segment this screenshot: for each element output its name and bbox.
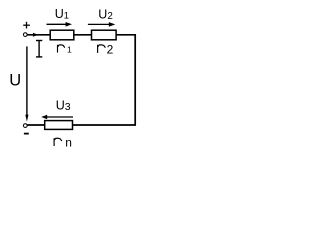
terminal (top, +) — [23, 33, 27, 37]
current arrow I on top wire — [33, 33, 38, 37]
label rn — [54, 138, 62, 146]
label r1 — [58, 45, 65, 53]
arrow U1 — [47, 22, 73, 27]
voltage arrow U (left side, pointing down) — [25, 46, 28, 121]
terminal (bottom, -) — [23, 124, 27, 128]
wire (bottom: right corner to rn) — [72, 124, 136, 126]
wire (rn to bottom terminal) — [27, 124, 45, 126]
wire (between r1 and r2) — [74, 34, 92, 36]
svg-text:1: 1 — [67, 44, 72, 54]
arrow U3 (pointing left) — [41, 115, 73, 119]
resistor r2 — [92, 30, 117, 40]
label r2 — [98, 45, 106, 53]
plus sign (+ terminal polarity) — [23, 22, 30, 29]
wire (r2 to top-right corner and down right side to bottom-right corner) — [116, 35, 135, 125]
svg-text:n: n — [65, 135, 72, 149]
svg-text:2: 2 — [107, 43, 114, 57]
minus sign (- terminal polarity) — [24, 133, 29, 135]
resistor r1 — [50, 30, 74, 40]
wire (top: terminal to r1) — [27, 34, 50, 36]
svg-text:U3: U3 — [56, 98, 71, 113]
label I — [36, 41, 42, 57]
svg-text:U: U — [9, 72, 21, 90]
resistor rn — [45, 121, 73, 130]
arrow U2 — [88, 22, 115, 27]
